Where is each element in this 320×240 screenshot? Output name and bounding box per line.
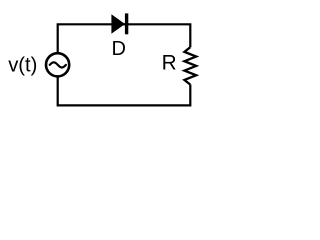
svg-text:R: R [162, 52, 177, 75]
svg-text:v(t): v(t) [8, 55, 37, 77]
svg-text:D: D [112, 38, 126, 60]
